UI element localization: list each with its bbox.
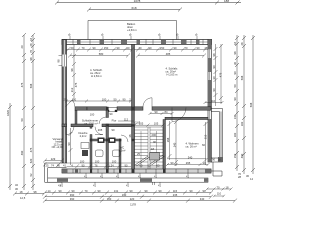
svg-text:d): d)	[101, 33, 103, 37]
small horizontal partition	[90, 139, 121, 141]
svg-text:25: 25	[137, 152, 140, 156]
room label top-left	[90, 68, 103, 78]
svg-text:98: 98	[212, 53, 216, 56]
svg-text:70: 70	[82, 46, 85, 50]
svg-text:41: 41	[58, 184, 61, 188]
left chain line 2	[23, 35, 25, 190]
svg-text:90: 90	[57, 164, 60, 168]
svg-text:ca. 13,5 m²: ca. 13,5 m²	[84, 122, 98, 126]
svg-text:18: 18	[20, 190, 23, 194]
svg-text:98: 98	[34, 190, 37, 194]
svg-text:18: 18	[151, 147, 154, 151]
svg-text:100: 100	[90, 113, 95, 117]
svg-text:d): d)	[158, 33, 160, 37]
svg-text:340: 340	[173, 142, 177, 147]
svg-text:ca. 26 m²: ca. 26 m²	[186, 145, 197, 149]
right wall interior dim lines	[214, 44, 224, 106]
svg-text:475: 475	[20, 82, 24, 87]
svg-text:90: 90	[203, 161, 206, 165]
bottom-left small chain	[13, 192, 46, 196]
right room upper wall	[165, 117, 208, 119]
interior middle dims	[65, 100, 224, 122]
top wall	[62, 40, 212, 45]
svg-text:110: 110	[211, 99, 216, 103]
svg-text:90: 90	[148, 164, 151, 168]
svg-text:18: 18	[233, 42, 237, 45]
svg-text:100: 100	[107, 197, 112, 201]
svg-text:182: 182	[240, 121, 244, 126]
svg-text:490: 490	[20, 150, 24, 155]
svg-text:36: 36	[128, 134, 132, 137]
right chain labels	[233, 42, 253, 181]
svg-text:20: 20	[20, 45, 24, 48]
middle horizontal wall A	[75, 107, 211, 112]
svg-text:115: 115	[173, 189, 178, 193]
svg-text:110: 110	[217, 192, 222, 196]
svg-text:105: 105	[154, 122, 159, 126]
svg-text:32: 32	[15, 183, 18, 187]
svg-text:100: 100	[80, 160, 85, 164]
svg-text:90: 90	[233, 97, 237, 100]
svg-text:98: 98	[57, 59, 61, 62]
svg-text:235: 235	[173, 193, 178, 197]
svg-text:150: 150	[104, 46, 109, 50]
svg-text:90: 90	[233, 71, 237, 74]
door arcs	[66, 98, 187, 142]
svg-text:90: 90	[197, 46, 200, 50]
bottom chain A	[45, 192, 211, 194]
svg-text:295: 295	[186, 161, 191, 165]
svg-text:90: 90	[110, 112, 113, 116]
svg-text:90: 90	[67, 142, 71, 145]
small room labels	[78, 128, 125, 153]
svg-text:105: 105	[139, 122, 144, 126]
svg-text:30: 30	[246, 174, 249, 178]
BOTTOM dimension chains	[43, 191, 237, 203]
svg-text:98: 98	[70, 68, 74, 71]
svg-text:41: 41	[93, 183, 96, 187]
stairwell right dim	[168, 121, 172, 160]
svg-text:14: 14	[48, 189, 51, 193]
left wall	[59, 40, 67, 164]
hall label	[82, 119, 117, 126]
bottom wall band 1	[62, 169, 211, 173]
svg-text:90: 90	[155, 110, 158, 114]
right chain line 3	[252, 35, 254, 174]
svg-text:508: 508	[249, 102, 253, 107]
svg-text:70: 70	[29, 50, 33, 53]
svg-text:98: 98	[29, 57, 33, 60]
svg-text:18: 18	[218, 158, 221, 162]
svg-text:140: 140	[233, 114, 237, 119]
svg-text:90: 90	[190, 189, 193, 193]
svg-text:90: 90	[59, 189, 62, 193]
RIGHT outer dimension chains	[235, 35, 255, 174]
bottom chain B	[45, 196, 211, 198]
svg-text:90: 90	[117, 46, 120, 50]
top dimension line 1078 / 188	[55, 1, 241, 5]
svg-text:98: 98	[233, 51, 237, 54]
svg-text:d): d)	[195, 33, 197, 37]
bottom chain C	[45, 200, 235, 202]
svg-text:90: 90	[212, 65, 216, 68]
svg-text:100: 100	[95, 160, 100, 164]
svg-text:70: 70	[217, 185, 220, 189]
svg-text:20: 20	[139, 46, 142, 50]
svg-text:28: 28	[240, 42, 244, 45]
svg-text:1,34: 1,34	[108, 163, 114, 167]
bath fixtures	[81, 143, 120, 157]
svg-text:390: 390	[70, 197, 75, 201]
svg-text:76: 76	[95, 163, 98, 167]
hall lower wall B segments	[62, 124, 67, 127]
svg-text:90: 90	[112, 128, 115, 132]
bottom interior dims	[67, 159, 210, 169]
svg-text:d): d)	[68, 33, 70, 37]
svg-text:1820: 1820	[6, 110, 10, 116]
svg-text:229: 229	[51, 157, 56, 161]
right chain line 1	[236, 35, 238, 171]
svg-text:H 2,63 m: H 2,63 m	[167, 73, 179, 77]
right wall	[208, 40, 212, 163]
svg-text:182: 182	[233, 132, 237, 137]
svg-text:475: 475	[74, 82, 78, 87]
svg-text:41: 41	[126, 183, 129, 187]
svg-text:100: 100	[112, 160, 117, 164]
svg-text:30: 30	[212, 76, 216, 79]
svg-text:475: 475	[219, 72, 223, 77]
svg-text:580: 580	[99, 52, 104, 56]
right room dim lines	[174, 120, 208, 166]
left chain line 1	[9, 103, 11, 190]
svg-text:60: 60	[202, 143, 205, 147]
svg-text:490: 490	[240, 153, 244, 158]
svg-text:131: 131	[114, 189, 119, 193]
svg-text:90: 90	[171, 161, 174, 165]
door box detail	[107, 107, 117, 112]
svg-text:150: 150	[233, 153, 237, 158]
stair bay dims	[43, 159, 64, 168]
svg-text:90: 90	[93, 46, 96, 50]
svg-text:74: 74	[51, 164, 54, 168]
bottom chain labels	[48, 189, 206, 207]
svg-text:d): d)	[176, 33, 178, 37]
balcony outline above	[88, 21, 177, 41]
svg-text:1078: 1078	[134, 0, 141, 3]
window sill marks between bands	[86, 173, 188, 176]
left interior vertical dim lower	[69, 128, 73, 165]
svg-text:14: 14	[250, 177, 253, 181]
svg-text:90: 90	[159, 189, 162, 193]
svg-text:90: 90	[203, 189, 206, 193]
svg-text:18: 18	[29, 38, 33, 41]
svg-text:12,5: 12,5	[20, 196, 26, 200]
svg-text:90: 90	[72, 189, 75, 193]
svg-text:340: 340	[200, 197, 205, 201]
svg-text:220: 220	[130, 197, 135, 201]
svg-text:28: 28	[29, 43, 33, 46]
svg-text:390: 390	[70, 193, 75, 197]
svg-text:52: 52	[29, 173, 33, 176]
svg-text:310: 310	[204, 134, 208, 139]
svg-text:65: 65	[157, 164, 160, 168]
svg-text:110: 110	[72, 98, 77, 102]
left wall annotation block	[52, 137, 64, 149]
svg-text:508: 508	[29, 83, 33, 88]
svg-text:25: 25	[64, 98, 67, 102]
svg-text:50: 50	[233, 84, 237, 87]
svg-text:90: 90	[123, 98, 126, 102]
bottom wall band 2 (terrace slab)	[48, 178, 208, 185]
svg-text:90: 90	[145, 189, 148, 193]
top dimension line 618	[87, 8, 182, 12]
svg-text:18: 18	[226, 185, 229, 189]
svg-text:112: 112	[124, 118, 129, 122]
svg-text:50: 50	[114, 98, 117, 102]
svg-text:90: 90	[174, 46, 177, 50]
svg-text:508: 508	[240, 75, 244, 80]
wall junction blobs	[90, 107, 166, 173]
stair top dims 105/10/105	[134, 124, 165, 127]
svg-text:90: 90	[212, 158, 215, 162]
svg-text:90: 90	[149, 46, 152, 50]
svg-text:618: 618	[131, 6, 136, 10]
svg-text:313: 313	[70, 87, 74, 92]
svg-text:50: 50	[71, 46, 74, 50]
svg-text:188: 188	[224, 0, 229, 3]
svg-text:25: 25	[46, 164, 49, 168]
svg-text:70: 70	[85, 189, 88, 193]
svg-text:100: 100	[102, 98, 107, 102]
svg-text:41: 41	[158, 183, 161, 187]
interior dimension chains top rooms	[66, 45, 208, 101]
svg-text:2,2m²: 2,2m²	[80, 134, 87, 138]
svg-text:90: 90	[153, 140, 156, 144]
svg-text:340: 340	[188, 155, 193, 159]
LEFT outer dimension chains	[8, 33, 35, 190]
svg-text:90: 90	[82, 163, 85, 167]
svg-text:90: 90	[125, 163, 128, 167]
svg-text:OK +0,00: OK +0,00	[52, 145, 64, 149]
svg-text:485: 485	[166, 52, 171, 56]
svg-text:84: 84	[165, 110, 168, 114]
svg-text:20: 20	[127, 46, 130, 50]
svg-text:+2,63 m: +2,63 m	[127, 28, 138, 32]
svg-text:368: 368	[166, 137, 170, 142]
svg-text:41: 41	[63, 164, 66, 168]
svg-text:200: 200	[152, 133, 157, 137]
svg-text:H 2,63 m: H 2,63 m	[91, 74, 103, 78]
bottom-left stair bay	[45, 163, 67, 182]
bottom right small dims	[206, 188, 233, 198]
staircase	[135, 127, 164, 169]
room label right lower	[186, 142, 199, 149]
ticks below band 2	[62, 182, 160, 184]
svg-text:90: 90	[98, 189, 101, 193]
left chain labels	[6, 38, 33, 191]
right annex walls	[211, 109, 223, 177]
interior divider wall between top rooms	[132, 45, 135, 108]
svg-text:30: 30	[233, 62, 237, 65]
svg-text:Flur: Flur	[112, 119, 117, 123]
right chain line 2	[243, 35, 245, 174]
svg-text:50: 50	[20, 118, 24, 121]
svg-text:1178: 1178	[130, 203, 136, 207]
svg-text:90: 90	[212, 88, 216, 91]
svg-text:d): d)	[129, 33, 131, 37]
left chain line 3	[32, 35, 34, 190]
svg-text:190: 190	[122, 193, 127, 197]
svg-text:150: 150	[160, 46, 165, 50]
svg-text:90: 90	[130, 189, 133, 193]
svg-text:65: 65	[140, 164, 143, 168]
svg-text:28: 28	[238, 175, 241, 179]
svg-text:20: 20	[205, 46, 208, 50]
svg-text:520: 520	[29, 158, 33, 163]
room label top-right	[166, 67, 179, 77]
svg-text:30: 30	[15, 187, 18, 191]
vertical partition walls lower	[75, 110, 77, 124]
svg-text:475: 475	[29, 147, 33, 152]
window marks d) on top wall	[70, 36, 197, 40]
svg-text:205: 205	[98, 128, 103, 132]
svg-text:70: 70	[185, 46, 188, 50]
